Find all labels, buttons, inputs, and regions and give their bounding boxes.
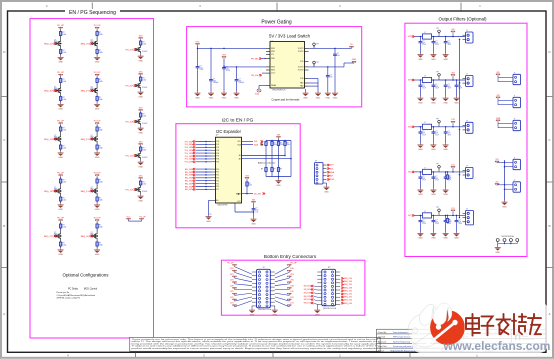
net label SEQ_1V5 right of P1 — [341, 290, 352, 293]
power tap 5V0 right of J3 — [287, 268, 293, 272]
svg-text:Q?: Q? — [91, 87, 93, 89]
capacitor C42 of 1V2 — [444, 172, 451, 182]
svg-text:R?: R? — [274, 142, 276, 144]
power tap 1V8 right of J3 — [287, 285, 293, 289]
net label 1V8 input — [408, 126, 415, 129]
wire tap PU_UP to J3 right — [275, 267, 290, 275]
svg-text:100k: 100k — [99, 148, 103, 150]
ground of Q4 — [94, 102, 100, 111]
inductor L2 — [423, 75, 432, 82]
svg-text:J?: J? — [514, 119, 516, 121]
net label EN_3V3 left of P1 — [304, 288, 318, 291]
capacitor C21 of 3V3 — [432, 80, 439, 90]
ground right 1 — [303, 89, 309, 99]
svg-text:10V: 10V — [435, 133, 438, 135]
wire source of Q9 — [60, 240, 62, 241]
ground of Q13 — [138, 125, 144, 134]
svg-text:EN_3V3: EN_3V3 — [185, 172, 193, 174]
svg-text:EN_5V0: EN_5V0 — [304, 286, 311, 288]
ground under C6 — [325, 79, 331, 99]
power 5V output — [349, 44, 353, 48]
ground C42 — [443, 180, 449, 196]
wire tap 1V5 to J3 — [235, 293, 253, 295]
transistor Q13 — [135, 118, 141, 125]
capacitor C10 of 5V0 — [419, 37, 426, 47]
P1 left pin stubs — [317, 272, 322, 304]
power tap 1V2 right of J3 — [287, 297, 293, 301]
ground C10 — [417, 45, 423, 61]
svg-text:P14: P14 — [216, 180, 219, 182]
ground right 3 — [332, 57, 338, 99]
svg-text:47uF: 47uF — [435, 44, 439, 46]
capacitor C31 of 1V8 — [432, 127, 439, 137]
svg-text:C?: C? — [213, 79, 215, 81]
svg-text:100k: 100k — [142, 116, 146, 118]
resistor R13 100k — [284, 141, 290, 147]
wire SDA — [242, 143, 264, 146]
svg-text:100k: 100k — [62, 148, 66, 150]
wire tap 2V5 to J3 — [235, 284, 253, 286]
wire Q7 drain trunk — [60, 177, 62, 178]
net label VQQ — [255, 86, 266, 96]
svg-text:PG_3V3: PG_3V3 — [126, 85, 135, 87]
svg-text:J?: J? — [514, 158, 516, 160]
svg-text:100k: 100k — [99, 130, 103, 132]
svg-text:10V: 10V — [435, 42, 438, 44]
svg-text:C?: C? — [256, 208, 258, 210]
ground under C4 — [234, 83, 240, 99]
svg-text:VIN1: VIN1 — [271, 51, 275, 53]
connector P1 body — [322, 267, 336, 310]
svg-text:J?: J? — [466, 165, 468, 167]
aux connector J10 — [513, 180, 521, 192]
wire tap 1V1 to J3 right — [275, 301, 290, 307]
pull-up power 3V3 for Q15 — [139, 175, 143, 179]
transistor Q6 — [91, 135, 98, 143]
svg-text:2V5: 2V5 — [230, 280, 233, 282]
net label EN_1V1 left of P1 — [304, 302, 318, 305]
transistor Q15 — [135, 186, 141, 193]
net label PG_1V1 — [185, 155, 216, 158]
svg-text:1V1: 1V1 — [230, 303, 233, 305]
svg-text:PU_UP: PU_UP — [57, 218, 64, 220]
svg-text:EN_1V0: EN_1V0 — [185, 186, 193, 188]
svg-text:100k: 100k — [280, 144, 284, 146]
resistor R pull-up 100k of Q7 — [59, 178, 66, 184]
svg-text:3V3: 3V3 — [252, 200, 255, 202]
test point TP row 4 — [436, 164, 440, 170]
svg-text:3V3: 3V3 — [139, 71, 142, 73]
svg-text:L?: L? — [424, 167, 426, 169]
svg-text:P?: P? — [328, 267, 330, 269]
wire of Q15 — [140, 185, 142, 187]
net label PGD at J2 — [327, 178, 335, 181]
svg-text:3V3: 3V3 — [139, 107, 142, 109]
svg-text:Approved:: Approved: — [378, 340, 387, 343]
net label SCL at J2 — [327, 168, 334, 171]
ground C50 — [417, 224, 423, 240]
svg-text:PU-HIC: PU-HIC — [142, 123, 148, 125]
connector J3 body — [257, 267, 271, 311]
svg-text:100k: 100k — [287, 144, 291, 146]
resistor R gate 100k of Q2 — [96, 49, 103, 55]
pull-up power 3V3 for Q13 — [139, 107, 143, 111]
aux connector J7 — [513, 96, 521, 108]
svg-text:100k: 100k — [99, 99, 103, 101]
capacitor C23 of 3V3 — [455, 80, 462, 90]
power tap 1V1 left of J3 — [230, 303, 236, 307]
svg-text:SCL: SCL — [238, 141, 241, 143]
svg-text:Project:: Project: — [378, 349, 385, 352]
svg-text:100k: 100k — [62, 200, 66, 202]
resistor R 100k of Q15 — [139, 180, 146, 186]
net label EN_5V0 — [185, 168, 216, 171]
ground right 2 — [315, 92, 321, 100]
transistor Q10 — [91, 232, 98, 240]
svg-text:1V1: 1V1 — [290, 303, 293, 305]
U1 pin stubs left — [266, 48, 309, 86]
svg-text:P10: P10 — [216, 169, 219, 171]
svg-text:SEQ_1V2: SEQ_1V2 — [44, 191, 54, 193]
svg-text:C?: C? — [435, 41, 437, 43]
svg-text:VTC: VTC — [196, 41, 201, 43]
svg-text:I2C_INT: I2C_INT — [254, 193, 262, 195]
wire rail 1V2 — [415, 171, 466, 173]
pull-up power PU_UP for Q2 — [94, 25, 101, 29]
capacitor C1 10uF — [196, 65, 204, 72]
wire of Q14 — [140, 151, 142, 153]
svg-text:SEQ_0V9: SEQ_0V9 — [344, 303, 352, 305]
power tap 1V1 after filter — [451, 208, 455, 216]
capacitor C40 of 1V2 — [419, 172, 426, 182]
transistor Q12 — [135, 82, 141, 89]
connector J2 external I2C — [315, 161, 327, 185]
svg-text:C?: C? — [435, 176, 437, 178]
U1 right pin names — [298, 48, 304, 88]
svg-text:3V3: 3V3 — [139, 141, 142, 143]
svg-text:47uF: 47uF — [435, 180, 439, 182]
ground of J3 left — [249, 306, 255, 316]
svg-text:VQQ: VQQ — [255, 94, 260, 96]
svg-text:SEQ_3V3: SEQ_3V3 — [44, 90, 54, 92]
wire VIN1 branch down — [198, 48, 212, 78]
svg-text:Q?: Q? — [54, 187, 56, 189]
capacitor C41 of 1V2 — [432, 172, 439, 182]
ground of Q8 — [94, 202, 100, 211]
svg-text:10V: 10V — [435, 178, 438, 180]
svg-text:EN_1V2: EN_1V2 — [304, 299, 311, 301]
wire INT to label — [242, 193, 254, 195]
net label SEQ_1V0 — [81, 190, 93, 193]
ground of Q1 — [58, 55, 64, 64]
svg-text:TP?: TP? — [316, 62, 319, 64]
inductor L1 — [423, 32, 432, 39]
svg-text:1V8: 1V8 — [230, 285, 233, 287]
resistor R 100k of Q13 — [139, 112, 146, 118]
Optional Configurations notes — [57, 292, 95, 299]
pull-up power PU_UP for Q4 — [94, 72, 101, 76]
svg-text:100k: 100k — [62, 130, 66, 132]
svg-text:10V: 10V — [435, 86, 438, 88]
ground C53 — [454, 224, 460, 240]
wire Q10 drain trunk — [96, 222, 98, 223]
svg-text:VOUT1: VOUT1 — [298, 48, 304, 50]
svg-text:100k: 100k — [142, 80, 146, 82]
ground trunk wire joining filter connectors — [459, 39, 461, 217]
svg-text:47uF: 47uF — [448, 44, 452, 46]
inductor L3 — [423, 122, 432, 129]
svg-text:PU_UP: PU_UP — [94, 218, 101, 220]
pull-up power PU_UP for Q3 — [57, 72, 64, 76]
power tap 1V5 right of J3 — [287, 291, 293, 295]
svg-text:1V8: 1V8 — [290, 285, 293, 287]
transistor Q14 — [135, 152, 141, 159]
wire Q9 drain trunk — [60, 222, 62, 223]
capacitor C51 of 1V1 — [432, 215, 439, 225]
svg-text:10V: 10V — [435, 221, 438, 223]
svg-text:VIN2: VIN2 — [271, 66, 275, 68]
net label SEQ_VTT — [44, 235, 57, 238]
net label SEQ_1V2 right of P1 — [341, 293, 352, 296]
capacitor C2 100pF — [209, 78, 218, 85]
svg-text:4.7uF: 4.7uF — [226, 70, 230, 72]
svg-text:PU-HIC: PU-HIC — [142, 51, 148, 53]
power tap PU_UP left of J3 — [227, 262, 236, 266]
wire rail 3V3 — [415, 79, 466, 81]
wire source of Q8 — [96, 195, 98, 196]
resistor R pull-up 100k of Q3 — [59, 78, 66, 84]
ground of P1 — [314, 304, 320, 316]
net label 1V1 input — [408, 214, 415, 217]
svg-text:Placed spec file:: Placed spec file: — [57, 292, 71, 294]
svg-text:4V5: 4V5 — [496, 72, 499, 74]
test point TP row 3 — [436, 118, 440, 124]
svg-text:R?: R? — [261, 168, 263, 170]
ground of J2 — [324, 183, 330, 193]
ground C12 — [443, 45, 449, 61]
svg-text:Drawn By:: Drawn By: — [378, 332, 387, 334]
U2 VCC power 3V3 — [235, 200, 256, 213]
power tap 3V3 right of J3 — [287, 274, 293, 278]
svg-text:10V: 10V — [422, 42, 425, 44]
svg-text:PU_UP: PU_UP — [57, 25, 64, 27]
capacitor C53 of 1V1 — [455, 215, 462, 225]
wire rail 1V8 — [415, 126, 466, 128]
svg-text:47uF: 47uF — [459, 223, 463, 225]
svg-text:TP?: TP? — [436, 28, 439, 30]
power tap 3V3 left of J3 — [230, 274, 236, 278]
wire tap 5V0 to J3 — [235, 272, 253, 278]
resistor R11 100k — [271, 141, 277, 147]
power tap 2V5 left of J3 — [230, 280, 236, 284]
svg-text:TPS22990RPC-R: TPS22990RPC-R — [272, 90, 286, 92]
net label PH_33n — [251, 73, 266, 77]
svg-text:EN / PG Sequencing: EN / PG Sequencing — [69, 10, 116, 16]
power tap 4V5 at aux connector — [496, 72, 513, 82]
svg-text:PH_5En: PH_5En — [251, 58, 258, 60]
wire source of Q5 — [60, 143, 62, 144]
svg-text:PU-HIC: PU-HIC — [142, 87, 148, 89]
title block text — [378, 331, 540, 353]
svg-text:J?: J? — [466, 30, 468, 32]
svg-text:P02: P02 — [216, 147, 219, 149]
svg-text:L?: L? — [424, 75, 426, 77]
test point TP row 2 — [436, 72, 440, 78]
power tap 1V1 right of J3 — [287, 303, 293, 307]
U2 left pin names — [216, 141, 219, 202]
power tap 1V8 after filter — [451, 119, 455, 127]
U2 right pin names — [237, 141, 241, 203]
net label PG_1V0 — [185, 158, 216, 161]
capacitor C6 output2 — [326, 67, 333, 79]
ground of Q15 — [138, 193, 144, 202]
title block frame — [377, 329, 547, 352]
output connector J1 — [463, 30, 474, 43]
net label PG_1V2 — [185, 152, 216, 155]
resistor R12 100k — [277, 141, 283, 147]
power tap 1V5B at aux connector — [496, 118, 513, 128]
svg-text:Checked:: Checked: — [378, 336, 386, 338]
resistor R INT 100k — [246, 180, 252, 194]
lower resistor RA3 — [277, 147, 282, 173]
svg-text:47uF: 47uF — [435, 88, 439, 90]
U1 GND pin wire to ground — [264, 57, 266, 59]
watermark ghost logo — [408, 304, 441, 347]
disclaimer text — [132, 338, 379, 350]
wire to drain of Q6 — [96, 132, 98, 140]
svg-text:J?: J? — [514, 180, 516, 182]
wire tap 2V5 to J3 right — [275, 284, 290, 286]
transistor Q11 — [135, 46, 141, 53]
ground C30 — [417, 135, 423, 151]
svg-text:EN_5V0: EN_5V0 — [185, 169, 193, 171]
net label EN_3V3 — [185, 171, 216, 174]
net label PG_1V1 — [126, 188, 149, 193]
svg-text:100k: 100k — [99, 34, 103, 36]
svg-text:100k: 100k — [62, 245, 66, 247]
svg-text:C?: C? — [448, 84, 450, 86]
capacitor C30 of 1V8 — [419, 127, 426, 137]
ground C20 — [417, 88, 423, 104]
resistor R pull-up 100k of Q6 — [96, 126, 103, 132]
svg-text:EN_1V8: EN_1V8 — [304, 292, 311, 294]
wire VTC to U1 VIN1 — [197, 46, 266, 50]
svg-text:P01: P01 — [216, 144, 219, 146]
watermark text dianzifashaoyou — [466, 314, 541, 336]
ground of test points — [495, 244, 501, 254]
transistor Q8 — [91, 187, 98, 195]
aux connector J8 — [513, 119, 521, 131]
svg-text:VBIAS: VBIAS — [271, 84, 277, 87]
resistor R pull-up 100k of Q5 — [59, 126, 66, 132]
transistor Q2 — [91, 40, 98, 48]
svg-text:1V5: 1V5 — [230, 291, 233, 293]
svg-text:PG_3V3: PG_3V3 — [185, 144, 193, 146]
svg-text:R?: R? — [280, 168, 282, 170]
wire Q5 drain trunk — [60, 125, 62, 126]
svg-text:TP: TP — [236, 193, 240, 196]
net label 3V3 input — [408, 79, 415, 82]
svg-text:PU_UP: PU_UP — [140, 217, 147, 219]
svg-text:47uF: 47uF — [422, 88, 426, 90]
net label PG_5V0 — [185, 140, 216, 143]
svg-text:TP?: TP? — [436, 207, 439, 209]
capacitor C50 of 1V1 — [419, 215, 426, 225]
svg-text:VOUT2: VOUT2 — [298, 70, 304, 72]
resistor R gate 100k of Q6 — [96, 144, 103, 150]
svg-text:100k: 100k — [274, 144, 278, 146]
net label 1V2 input — [408, 171, 415, 174]
svg-text:PU_UP: PU_UP — [227, 262, 234, 264]
transistor Q9 — [54, 232, 61, 240]
svg-text:100k: 100k — [62, 182, 66, 184]
svg-text:100k: 100k — [62, 227, 66, 229]
net label SEQ_1V8 — [44, 138, 56, 141]
resistor bleeder R5 — [446, 215, 451, 224]
svg-text:TP?: TP? — [436, 164, 439, 166]
svg-text:10V: 10V — [422, 86, 425, 88]
svg-text:PU_UP: PU_UP — [57, 121, 64, 123]
svg-text:1V1: 1V1 — [451, 208, 454, 210]
watermark backdrop — [412, 302, 548, 354]
svg-text:SEQ_1V5: SEQ_1V5 — [81, 90, 91, 92]
pull-up power PU_UP for Q1 — [57, 25, 64, 29]
net label SEQ_1V1 — [81, 138, 93, 141]
TI logo — [514, 335, 536, 341]
svg-text:47uF: 47uF — [448, 135, 452, 137]
wire VOUT2 row — [309, 63, 355, 68]
wire 3V3 to U1 VIN2 — [223, 59, 266, 68]
svg-text:10k: 10k — [449, 178, 452, 180]
ground of Q14 — [138, 159, 144, 168]
resistor R pull-up 100k of Q4 — [96, 78, 103, 84]
power tap PU_UP right of J3 — [287, 262, 297, 266]
resistor R 100k of Q11 — [139, 40, 146, 46]
wire to drain of Q3 — [60, 84, 62, 92]
svg-text:C?: C? — [422, 41, 424, 43]
svg-text:Systems Engineering: Systems Engineering — [393, 340, 410, 343]
svg-text:47uF: 47uF — [422, 44, 426, 46]
svg-text:SEQ_1V8: SEQ_1V8 — [44, 139, 54, 141]
wire Q4 drain trunk — [96, 76, 98, 77]
svg-text:J?: J? — [514, 96, 516, 98]
wire of Q13 — [140, 117, 142, 119]
network bottom rail — [266, 159, 291, 178]
ground of C7 — [251, 212, 257, 225]
pull-up power PU_UP for Q9 — [57, 218, 64, 222]
ground C23 — [454, 88, 460, 104]
wire tap 3V3 to J3 — [235, 278, 253, 282]
pull-up power PU_UP for Q7 — [57, 173, 64, 177]
svg-text:VOUT1: VOUT1 — [298, 51, 304, 53]
pull-up power 3V3 for Q12 — [139, 71, 143, 75]
power tap 1V8 left of J3 — [230, 285, 236, 289]
I2C pull-up network power 3V3 — [276, 135, 280, 141]
resistor R gate 100k of Q8 — [96, 196, 103, 202]
resistor R gate 100k of Q5 — [59, 144, 66, 150]
svg-text:1V2: 1V2 — [230, 297, 233, 299]
J3 right pin stubs — [270, 272, 275, 306]
svg-text:47uF: 47uF — [422, 135, 426, 137]
capacitor C32 of 1V8 — [444, 127, 451, 137]
svg-text:Q?: Q? — [54, 232, 56, 234]
section box: Output Filters (Optional) — [405, 23, 527, 256]
net label EN_1V1 — [185, 183, 216, 186]
svg-text:4.7uF: 4.7uF — [200, 69, 204, 71]
wire source of Q2 — [96, 47, 98, 48]
svg-text:2V5: 2V5 — [290, 280, 293, 282]
svg-text:C?: C? — [435, 131, 437, 133]
